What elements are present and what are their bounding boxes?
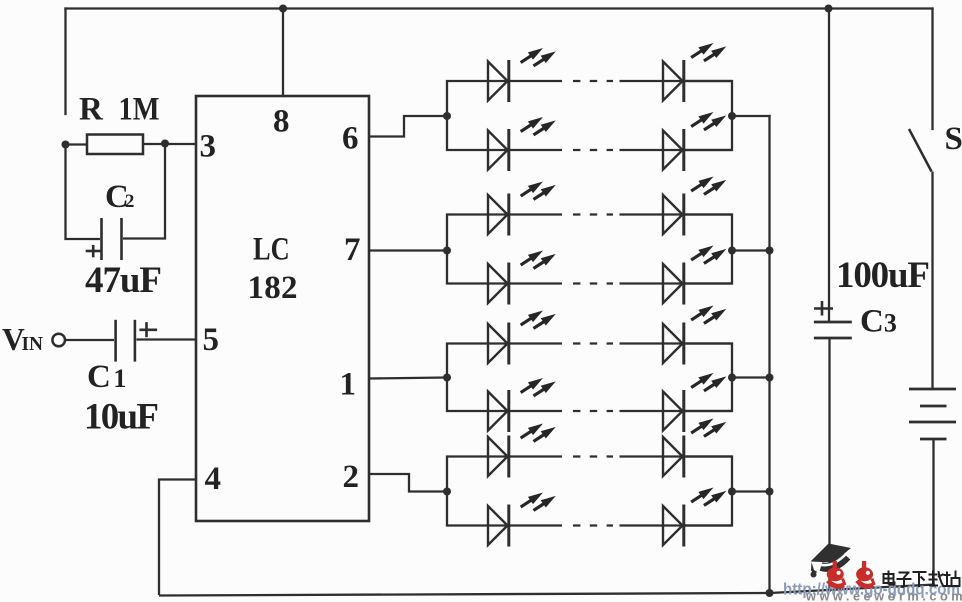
LED D4a (left of row 4) [488, 251, 556, 305]
wire left bus pair 2 [447, 215, 509, 284]
wire row 6 to right bus [685, 410, 732, 412]
char zi [899, 572, 910, 574]
wire row 1 dashed middle [510, 80, 685, 82]
node pair 4 right junction [728, 488, 736, 496]
wire top supply rail [66, 7, 933, 9]
svg-text:IN: IN [22, 333, 44, 355]
wire pair 4 bus link to far bus [732, 490, 770, 492]
wire left bus pair 1 [447, 81, 509, 150]
svg-text:2: 2 [343, 459, 360, 495]
svg-text:182: 182 [248, 270, 298, 306]
wire row 4 dashed middle [510, 282, 685, 284]
LED D6b (right of row 6) [663, 373, 726, 432]
wire right bus pair 2 [684, 215, 732, 284]
wire row 1 to right bus [685, 80, 732, 82]
svg-text:3: 3 [200, 129, 217, 165]
wire right bus pair 1 [684, 81, 732, 150]
watermark logo [783, 544, 962, 602]
black brand text 电子下载站 [884, 571, 960, 588]
polarity plus C1 [139, 322, 157, 337]
LED D2b (right of row 2) [663, 112, 726, 171]
node pair 2 far bus junction [766, 247, 774, 255]
char zai [929, 574, 938, 576]
wire right bus pair 4 [684, 457, 732, 526]
LED D2a (left of row 2) [488, 117, 556, 171]
svg-text:C1: C1 [87, 359, 126, 395]
polarity plus C3 [814, 301, 833, 316]
wire row 8 to right bus [685, 524, 732, 526]
capacitor C1 [66, 320, 197, 362]
polarity plus C2 [86, 245, 101, 257]
capacitor C3 [814, 322, 852, 592]
svg-text:47uF: 47uF [85, 260, 162, 301]
IC U1 LC182 [196, 96, 369, 521]
node pair 3 far bus junction [766, 374, 774, 382]
wire row 2 dashed middle [510, 149, 685, 151]
wire row 2 to right bus [685, 149, 732, 151]
svg-text:100uF: 100uF [836, 255, 930, 296]
junction top rail / pin8 [279, 5, 287, 13]
wire bottom return rail [159, 585, 935, 596]
node pair 2 right junction [728, 247, 736, 255]
node pair 4 left junction [443, 488, 451, 496]
LED D3a (left of row 3) [488, 182, 556, 236]
wire row 3 to right bus [685, 213, 732, 215]
svg-text:5: 5 [203, 322, 220, 358]
wire left drop from top rail [64, 9, 66, 115]
node pair 2 left junction [443, 247, 451, 255]
svg-text:10uF: 10uF [84, 397, 159, 438]
wire pin8 drop from top rail [282, 9, 284, 97]
wire row 3 dashed middle [510, 213, 685, 215]
wire switch to battery [931, 172, 933, 390]
LED D6a (left of row 6) [488, 378, 556, 432]
svg-text:1M: 1M [119, 92, 160, 128]
LED D8b (right of row 8) [663, 488, 726, 547]
LED D4b (right of row 4) [663, 246, 726, 305]
LED D5b (right of row 5) [663, 306, 726, 365]
wire row 4 to right bus [685, 282, 732, 284]
wire right bus pair 3 [684, 344, 732, 412]
svg-text:4: 4 [205, 461, 222, 497]
battery B1 [909, 389, 956, 585]
junction R right [161, 140, 169, 148]
LED D7b (right of row 7) [663, 419, 726, 478]
wire row 7 dashed middle [510, 455, 685, 457]
char dian [884, 574, 894, 583]
wire row 7 to right bus [685, 455, 732, 457]
wire row 5 to right bus [685, 342, 732, 344]
LED D5a (left of row 5) [488, 311, 556, 365]
svg-text:C2: C2 [105, 179, 134, 215]
wire C3 drop from top rail [828, 9, 830, 323]
junction top rail / C3 [825, 5, 833, 13]
resistor R 1M [66, 135, 197, 155]
svg-text:C3: C3 [860, 304, 897, 340]
svg-text:6: 6 [342, 121, 359, 157]
LED array wiring [447, 81, 770, 593]
LED D8a (left of row 8) [488, 493, 556, 547]
wire pin 4 to bottom rail [159, 480, 196, 596]
node pair 3 right junction [728, 374, 736, 382]
capacitor C2 [66, 144, 166, 261]
wire pin 1 to LED pair 3 [369, 378, 447, 379]
node pair 1 right junction [728, 112, 736, 120]
LED D3b (right of row 3) [663, 177, 726, 236]
wire pin 6 to LED pair 1 [369, 116, 447, 137]
svg-text:R: R [79, 92, 104, 128]
graduation cap icon [811, 544, 852, 578]
char xia [913, 571, 927, 573]
wire row 5 dashed middle [510, 342, 685, 344]
wire pair 3 bus link to far bus [732, 376, 770, 378]
wire pair 1 bus link to far bus [732, 115, 770, 117]
svg-text:7: 7 [344, 232, 361, 268]
red brand text 虫虫 [827, 561, 875, 586]
wire pair 2 bus link to far bus [732, 249, 770, 251]
wire pin 2 to LED pair 4 [369, 474, 447, 492]
LED D1a (left of row 1) [488, 48, 556, 102]
svg-text:LC: LC [253, 231, 290, 267]
svg-text:www.eeworm.com: www.eeworm.com [805, 589, 962, 602]
char zhan [946, 572, 948, 586]
junction far bus / bottom rail [766, 589, 774, 597]
svg-text:1: 1 [340, 367, 357, 403]
terminal VIN [52, 334, 65, 347]
wire pin 7 to LED pair 2 [369, 249, 447, 251]
wire row 8 dashed middle [510, 524, 685, 526]
wire switch drop from top rail [931, 9, 933, 130]
node pair 4 far bus junction [766, 488, 774, 496]
LED D1b (right of row 1) [663, 43, 726, 102]
LED D7a (left of row 7) [488, 424, 556, 478]
node pair 1 left junction [443, 112, 451, 120]
switch S [909, 129, 932, 172]
wire left bus pair 4 [447, 457, 509, 526]
wire left bus pair 3 [447, 344, 509, 412]
svg-text:8: 8 [273, 104, 290, 140]
wire row 6 dashed middle [510, 410, 685, 412]
wire far right bus [768, 116, 770, 593]
junction R left [62, 141, 70, 149]
node pair 3 left junction [443, 374, 451, 382]
svg-text:S: S [945, 121, 962, 157]
